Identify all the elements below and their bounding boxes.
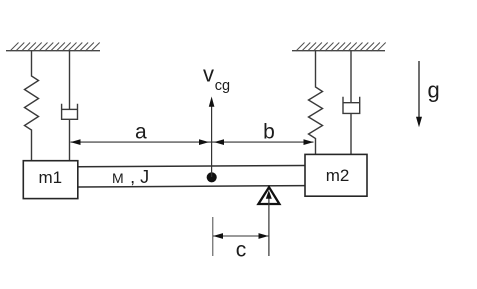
svg-text:b: b <box>263 121 275 144</box>
svg-text:cg: cg <box>215 78 230 94</box>
svg-text:g: g <box>427 78 439 103</box>
svg-text:m2: m2 <box>326 166 350 185</box>
svg-text:c: c <box>236 238 247 261</box>
svg-text:v: v <box>203 62 214 87</box>
svg-text:M , J: M , J <box>112 167 149 187</box>
svg-text:m1: m1 <box>38 168 62 187</box>
svg-text:a: a <box>135 120 147 143</box>
